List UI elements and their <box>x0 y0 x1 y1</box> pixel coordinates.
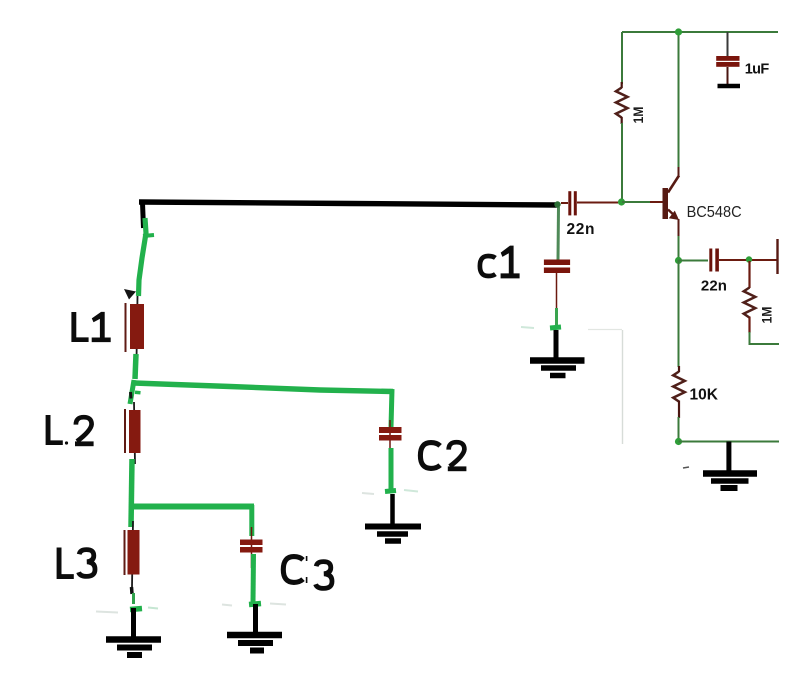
label L1 <box>71 312 110 342</box>
label C2 <box>420 442 466 471</box>
wire: dark red 22n to junction <box>577 202 618 204</box>
wire: dark red into base <box>650 201 663 203</box>
wire: thin black lead through L2 <box>134 402 135 464</box>
transistor Q1 base bar <box>663 188 669 219</box>
capacitor 22n output left plate <box>709 249 712 272</box>
ground under C2 <box>365 494 421 541</box>
capacitor 1uF lead from rail <box>727 32 729 56</box>
wire: green drop into C2 <box>391 389 392 427</box>
wire: thin black lead through L3 <box>132 521 133 587</box>
transistor Q1 emitter arrow <box>669 211 679 220</box>
node: dark blob below L3 <box>130 587 134 594</box>
wire: green below c1 <box>555 308 558 326</box>
resistor R1 1M zigzag <box>616 88 628 118</box>
label L2 <box>46 415 94 446</box>
artifact: faint erased horizontal line <box>588 329 622 331</box>
resistor R2 1M right zigzag <box>744 288 756 318</box>
resistor R1 1M top lead <box>621 82 623 88</box>
terminal: 1uF black end bar <box>718 84 741 89</box>
capacitor c1 top plate <box>544 260 570 266</box>
wire: dark lead below R2 <box>748 317 750 334</box>
wire: collector green up to rail <box>678 32 680 168</box>
artifact dash near c1 ground <box>521 327 534 328</box>
capacitor C2 top plate <box>379 427 402 433</box>
node B: dark remnant above L2 <box>129 392 133 399</box>
wire: dark red 22n to output terminal <box>719 259 777 261</box>
wire: green below L2 <box>131 459 132 527</box>
wire: green from 10K to ground rail <box>678 417 680 442</box>
capacitor 1uF top plate <box>716 56 739 61</box>
resistor R3 10K top lead <box>678 366 680 372</box>
artifact dashes near L3 ground <box>96 612 118 613</box>
node: emitter junction dot <box>675 257 682 264</box>
svg-text:1uF: 1uF <box>745 62 770 78</box>
ground under C3 <box>227 604 282 651</box>
label C3 <box>283 556 332 588</box>
wire: green blob at C2 ground <box>385 491 396 492</box>
inductor L3 <box>128 530 140 575</box>
wire: long green tap to C2 <box>134 383 393 392</box>
wire: green from R1 to base node <box>621 123 623 201</box>
wire: green below L1 <box>135 354 136 379</box>
wire: thin black lead through L1 <box>137 296 138 360</box>
terminal: output end bar <box>776 239 778 274</box>
capacitor C3 bottom plate <box>240 547 263 553</box>
svg-text:1M: 1M <box>759 307 775 324</box>
wire: collector dark lead <box>678 167 680 177</box>
transistor Q1 collector stroke <box>668 176 679 193</box>
capacitor C3 thin lead <box>251 527 253 568</box>
artifact dashes near C3 ground <box>222 605 232 606</box>
capacitor 1uF bottom plate <box>716 62 739 67</box>
capacitor 22n input left plate <box>568 191 571 215</box>
capacitor c1 bottom plate <box>544 268 570 274</box>
wire: black stub down at left end of bus <box>143 203 144 228</box>
inductor L2 <box>129 410 141 453</box>
wire: top supply rail green <box>622 31 778 33</box>
inductor L2 side line <box>124 409 126 453</box>
svg-text:22n: 22n <box>567 221 595 238</box>
artifact dashes near C2 ground <box>362 493 374 494</box>
node: rail junction dot <box>675 28 682 35</box>
node: dark green blob at bus end <box>554 201 560 207</box>
wire: emitter dark lead <box>678 219 680 237</box>
wire: green bend into L2 <box>130 380 134 404</box>
artifact: small tick near bottom rail <box>683 467 689 468</box>
wire: green tick <box>143 235 154 236</box>
inductor L3 side line <box>124 530 126 575</box>
resistor R1 bottom lead <box>621 117 623 124</box>
wire: green below C3 <box>251 554 257 602</box>
capacitor 1uF lower lead <box>727 67 729 84</box>
capacitor 22n input right plate <box>574 191 577 215</box>
label c1 <box>480 246 520 279</box>
wire: top black bus <box>139 202 557 205</box>
node A: black remnant arrow above L1 <box>124 289 136 300</box>
wire: green tick at L2 node <box>135 391 141 395</box>
wire: green emitter node to 22n out <box>679 260 709 262</box>
wire: green drop to C3 <box>249 505 254 536</box>
svg-text:BC548C: BC548C <box>687 204 742 221</box>
resistor R3 bottom lead <box>678 401 680 419</box>
svg-text:1M: 1M <box>630 107 646 124</box>
svg-text:22n: 22n <box>701 277 727 294</box>
capacitor C3 top plate <box>240 540 263 546</box>
wire: green from bus down to L1 <box>139 218 147 296</box>
wire: green down to R1 <box>621 32 623 84</box>
inductor L1 <box>130 304 144 349</box>
wire: dark red stub bus to 22n <box>561 202 568 204</box>
resistor R3 10K zigzag <box>673 372 685 402</box>
wire: dark lead to R2 <box>748 261 750 288</box>
capacitor C2 thin lead <box>389 420 391 450</box>
artifact: faint erased vertical line <box>622 330 624 444</box>
wire: green corner to right edge <box>750 332 780 344</box>
ground under L3 <box>106 608 161 655</box>
svg-text:10K: 10K <box>690 387 719 404</box>
label L3 <box>57 548 95 580</box>
inductor L1 side line <box>125 303 127 352</box>
capacitor 22n output right plate <box>715 249 719 272</box>
wire: green tap to C3 <box>130 504 254 510</box>
wire: muted green from bus down to c1 <box>557 207 561 260</box>
node: output junction dot <box>746 256 752 262</box>
node: bottom junction dot <box>675 438 682 445</box>
ground under c1 <box>530 330 585 376</box>
wire: emitter green to node <box>678 236 680 260</box>
wire: green bits below L3 <box>132 593 135 604</box>
wire: green junction to base <box>622 201 652 203</box>
transistor Q1 emitter stroke <box>668 210 677 218</box>
ground right <box>703 442 757 489</box>
wire: green below C2 <box>389 448 394 490</box>
wire: green emitter node down to 10K <box>678 260 680 367</box>
wire: bottom green rail <box>679 441 780 443</box>
capacitor c1 thin lead <box>556 273 558 309</box>
node: base junction dot <box>618 198 625 205</box>
wire: green blob at c1 ground <box>550 327 561 328</box>
capacitor C2 bottom plate <box>379 435 402 441</box>
